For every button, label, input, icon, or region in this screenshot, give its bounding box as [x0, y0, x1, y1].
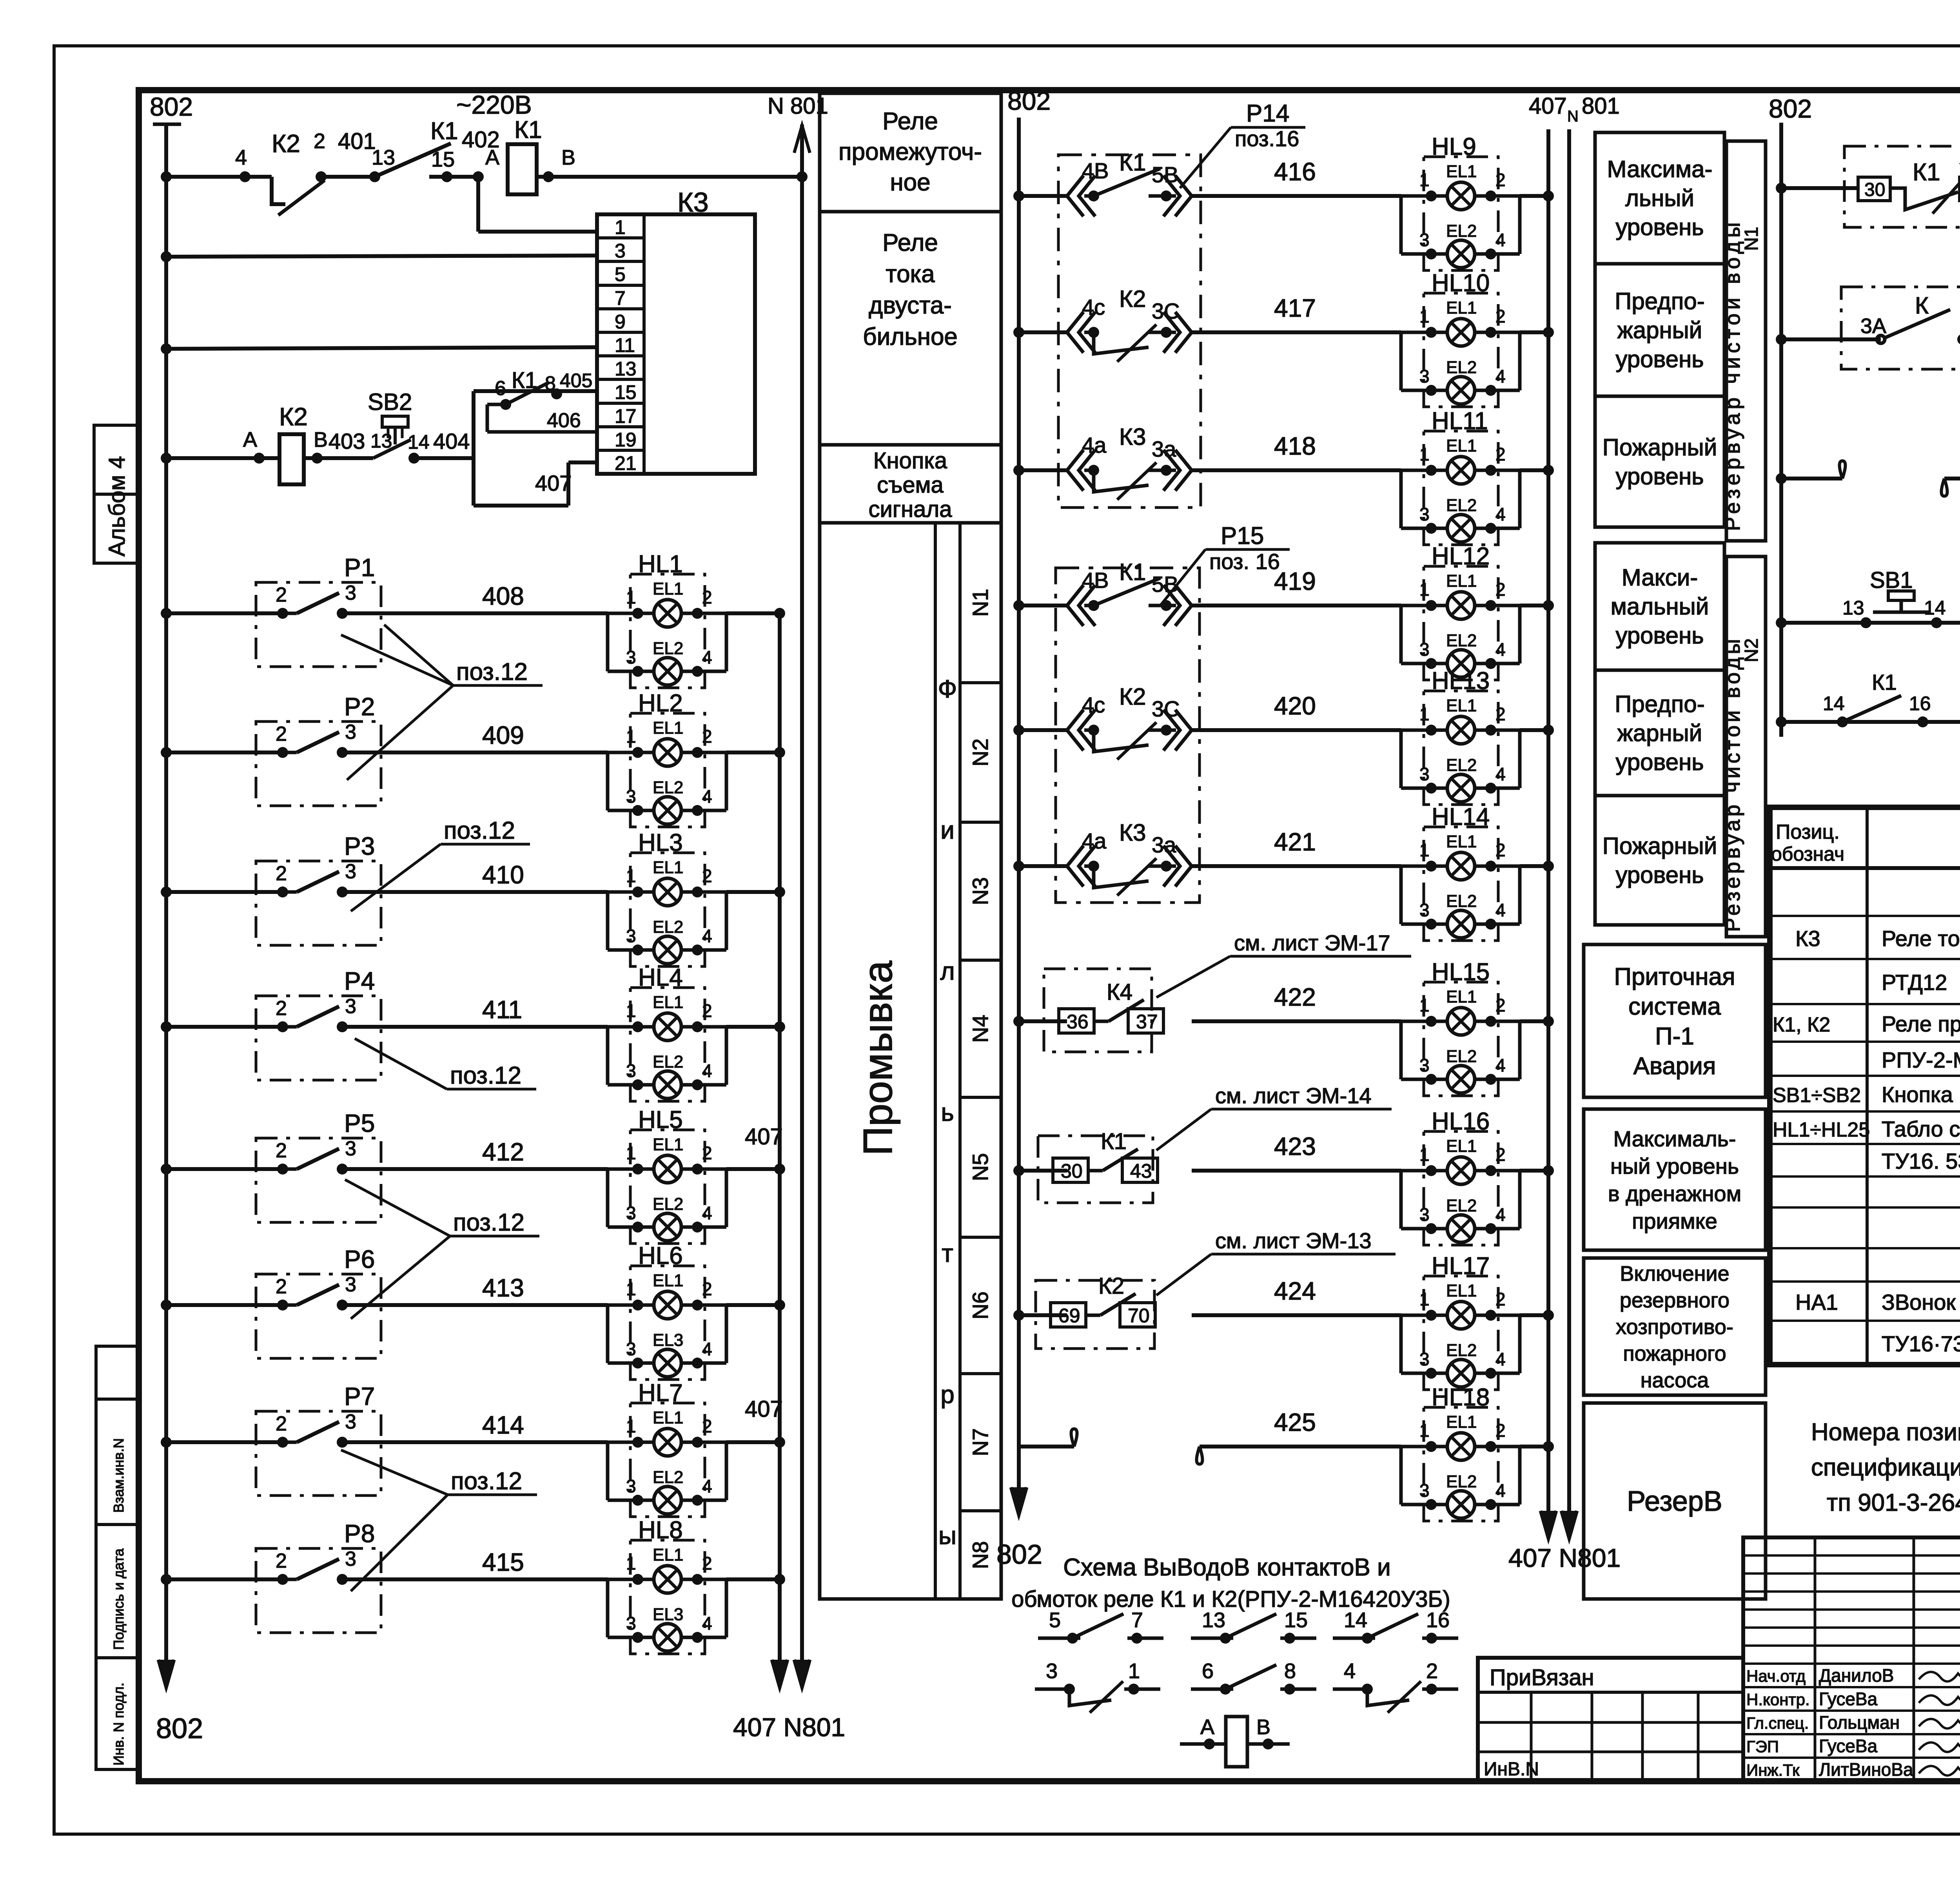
- svg-text:обознач: обознач: [1771, 843, 1844, 865]
- box Пожарный уровень N1: [1595, 396, 1724, 527]
- svg-text:Приточная: Приточная: [1614, 963, 1735, 990]
- svg-text:HL12: HL12: [1432, 543, 1490, 570]
- tall box Промывка Фильтры N1-N8: [820, 523, 1001, 1599]
- svg-text:3: 3: [626, 1476, 636, 1496]
- svg-text:ное: ное: [890, 169, 930, 196]
- svg-text:EL2: EL2: [1446, 496, 1477, 515]
- svg-text:ГЭП: ГЭП: [1746, 1737, 1779, 1756]
- svg-text:4а: 4а: [1082, 433, 1107, 457]
- svg-text:Максималь-: Максималь-: [1613, 1126, 1736, 1151]
- svg-text:N4: N4: [968, 1015, 993, 1043]
- svg-text:ГусеВа: ГусеВа: [1819, 1736, 1878, 1756]
- svg-text:EL2: EL2: [1446, 892, 1477, 911]
- svg-text:Предпо-: Предпо-: [1615, 288, 1704, 314]
- svg-text:Инв. N подл.: Инв. N подл.: [111, 1682, 127, 1766]
- svg-text:поз.16: поз.16: [1235, 126, 1299, 151]
- svg-text:2: 2: [276, 862, 287, 885]
- svg-text:HL18: HL18: [1432, 1384, 1490, 1411]
- svg-text:HL2: HL2: [638, 690, 683, 717]
- relay coil K2: [279, 434, 304, 484]
- svg-text:EL1: EL1: [1446, 436, 1477, 455]
- svg-text:р: р: [940, 1380, 955, 1409]
- svg-text:3: 3: [1419, 1349, 1430, 1369]
- relay contact Р4: [256, 996, 381, 1080]
- svg-text:4: 4: [1495, 900, 1506, 920]
- svg-text:тп 901-3-264.89: тп 901-3-264.89: [1827, 1489, 1960, 1516]
- svg-text:423: 423: [1274, 1132, 1316, 1160]
- svg-text:2: 2: [276, 723, 287, 745]
- svg-text:приямке: приямке: [1632, 1209, 1717, 1233]
- lamp HL8: [630, 1540, 705, 1654]
- relay contact Р2: [256, 721, 381, 806]
- svg-text:Кнопка КЕ-011У3исп2 ТУ 1652640: Кнопка КЕ-011У3исп2 ТУ 16526407-79: [1882, 1082, 1960, 1107]
- group contact box P14: [1058, 155, 1201, 508]
- relay contact Р6: [256, 1274, 381, 1358]
- svg-text:К: К: [1915, 292, 1929, 319]
- svg-text:~220В: ~220В: [456, 90, 532, 119]
- svg-text:EL2: EL2: [1446, 1341, 1477, 1360]
- svg-text:EL1: EL1: [653, 579, 683, 598]
- svg-text:1: 1: [615, 216, 626, 238]
- svg-text:801: 801: [1582, 93, 1620, 119]
- svg-text:EL2: EL2: [1446, 756, 1477, 775]
- svg-text:2: 2: [276, 997, 287, 1020]
- svg-text:413: 413: [482, 1274, 524, 1302]
- svg-text:РПУ-2-М16420У3Б ~220ВТУ16-5233: РПУ-2-М16420У3Б ~220ВТУ16-523331-78: [1882, 1048, 1960, 1072]
- box Максимальный уровень N1: [1595, 132, 1724, 264]
- svg-text:К1: К1: [1119, 149, 1146, 176]
- svg-text:EL1: EL1: [653, 1408, 683, 1427]
- svg-text:15: 15: [615, 381, 637, 403]
- svg-text:2: 2: [1495, 704, 1506, 724]
- box Реле тока двустабильное: [820, 212, 1001, 445]
- svg-text:спецификации АТХ С01 Альбо: спецификации АТХ С01 Альбом 7: [1811, 1454, 1960, 1481]
- lamp HL11: [1424, 431, 1498, 545]
- svg-text:4: 4: [1495, 1480, 1506, 1501]
- svg-text:Р14: Р14: [1246, 100, 1289, 127]
- svg-text:3: 3: [345, 1137, 356, 1160]
- svg-text:802: 802: [150, 92, 193, 121]
- svg-text:407: 407: [745, 1396, 783, 1422]
- svg-text:бильное: бильное: [863, 323, 958, 350]
- svg-text:ИнВ.N: ИнВ.N: [1484, 1759, 1539, 1780]
- svg-text:11: 11: [615, 334, 635, 356]
- svg-text:1: 1: [626, 866, 636, 886]
- svg-text:N2: N2: [968, 738, 993, 767]
- svg-text:К2: К2: [1119, 286, 1146, 312]
- svg-text:К2: К2: [279, 402, 308, 431]
- svg-text:2: 2: [702, 1553, 712, 1574]
- svg-text:К3: К3: [1795, 926, 1820, 951]
- svg-text:N2: N2: [1741, 638, 1762, 662]
- svg-text:EL2: EL2: [1446, 1196, 1477, 1215]
- svg-text:ы: ы: [938, 1521, 956, 1550]
- svg-text:3: 3: [1419, 1204, 1430, 1225]
- svg-text:3а: 3а: [1152, 832, 1176, 857]
- svg-text:1: 1: [626, 1143, 636, 1163]
- svg-text:Резервуар чистой воды: Резервуар чистой воды: [1721, 218, 1744, 531]
- svg-text:К2: К2: [1119, 683, 1146, 710]
- svg-text:Гл.спец.: Гл.спец.: [1746, 1714, 1809, 1732]
- svg-text:EL2: EL2: [653, 1468, 683, 1487]
- svg-text:4: 4: [1495, 1204, 1506, 1225]
- svg-text:2: 2: [1495, 1289, 1506, 1309]
- svg-text:420: 420: [1274, 692, 1316, 720]
- svg-text:HL11: HL11: [1432, 408, 1488, 435]
- svg-text:2: 2: [1495, 995, 1506, 1015]
- svg-text:1: 1: [1419, 579, 1430, 600]
- contact К2 row 420: [1067, 710, 1083, 750]
- svg-text:HL1: HL1: [638, 551, 683, 578]
- svg-text:2: 2: [276, 584, 287, 606]
- svg-text:422: 422: [1274, 983, 1316, 1011]
- svg-text:4с: 4с: [1082, 692, 1105, 717]
- svg-text:НА1: НА1: [1795, 1290, 1838, 1314]
- svg-text:404: 404: [433, 429, 470, 453]
- svg-text:408: 408: [482, 582, 524, 610]
- left margin strip Инв подписи: [96, 1346, 139, 1399]
- wire 408: [161, 608, 172, 619]
- svg-text:Максима-: Максима-: [1607, 156, 1712, 182]
- svg-text:1: 1: [626, 1001, 636, 1021]
- svg-text:Кнопка: Кнопка: [873, 448, 947, 473]
- svg-text:4В: 4В: [1082, 158, 1109, 183]
- wire 416 and lamp HL9: [1013, 190, 1024, 201]
- svg-text:5: 5: [615, 263, 626, 285]
- svg-text:EL1: EL1: [1446, 832, 1477, 851]
- svg-text:1: 1: [626, 1416, 636, 1436]
- svg-text:401: 401: [338, 129, 376, 154]
- svg-text:ДанилоВ: ДанилоВ: [1819, 1665, 1894, 1686]
- svg-text:4с: 4с: [1082, 295, 1105, 319]
- left margin boxes Альбом 4: [94, 425, 139, 563]
- lamp HL3: [630, 853, 705, 966]
- svg-text:А: А: [485, 146, 499, 169]
- wire 428-431 with breaks: [1776, 473, 1787, 484]
- svg-text:2: 2: [1495, 444, 1506, 464]
- box Максимальный уровень N2: [1595, 543, 1724, 670]
- svg-text:EL1: EL1: [653, 1545, 683, 1564]
- lamp HL14: [1424, 827, 1498, 941]
- lamp HL18: [1424, 1407, 1498, 1521]
- svg-text:2: 2: [1495, 306, 1506, 326]
- svg-text:3: 3: [1419, 1480, 1430, 1501]
- svg-text:4: 4: [1495, 1055, 1506, 1075]
- svg-text:Р5: Р5: [344, 1109, 375, 1137]
- svg-text:пожарного: пожарного: [1623, 1342, 1726, 1365]
- svg-text:съема: съема: [877, 472, 944, 498]
- wire 412: [161, 1164, 172, 1175]
- svg-text:Реле: Реле: [882, 108, 938, 135]
- svg-text:SB2: SB2: [368, 389, 412, 415]
- svg-text:1: 1: [1419, 1289, 1430, 1309]
- svg-text:1: 1: [1128, 1659, 1140, 1683]
- svg-text:3: 3: [1419, 639, 1430, 660]
- svg-text:N5: N5: [968, 1153, 993, 1181]
- svg-text:EL1: EL1: [1446, 1281, 1477, 1300]
- wire 425 and lamp HL18: [1019, 1445, 1074, 1448]
- svg-text:2: 2: [1495, 840, 1506, 860]
- svg-text:Р8: Р8: [344, 1519, 375, 1548]
- svg-text:Р4: Р4: [344, 967, 375, 995]
- svg-text:Нач.отд: Нач.отд: [1746, 1667, 1806, 1685]
- svg-text:4: 4: [702, 786, 712, 807]
- strip Резервуар чистой воды N2: [1726, 557, 1766, 937]
- specification table: [1770, 807, 1960, 1365]
- wire 411: [161, 1021, 172, 1032]
- svg-text:Табло сВетоВое ГСБ-Ш-У3-01: Табло сВетоВое ГСБ-Ш-У3-01: [1882, 1117, 1960, 1141]
- svg-text:обмоток реле К1 и К2(РПУ-2-М16: обмоток реле К1 и К2(РПУ-2-М16420У3Б): [1011, 1586, 1450, 1612]
- svg-text:2: 2: [702, 587, 712, 607]
- svg-text:3: 3: [1419, 366, 1430, 386]
- svg-text:3: 3: [626, 786, 636, 807]
- svg-text:2: 2: [702, 866, 712, 886]
- svg-text:2: 2: [1495, 170, 1506, 190]
- svg-text:Промывка: Промывка: [855, 961, 901, 1156]
- svg-text:3: 3: [1419, 764, 1430, 784]
- wire 414: [161, 1437, 172, 1448]
- svg-text:EL2: EL2: [1446, 358, 1477, 377]
- svg-text:Гольцман: Гольцман: [1819, 1712, 1900, 1733]
- lamp HL1: [630, 574, 705, 688]
- svg-text:Позиц.: Позиц.: [1776, 821, 1840, 843]
- box Кнопка съема сигнала: [820, 445, 1001, 523]
- svg-text:К1: К1: [1119, 559, 1146, 585]
- svg-text:Авария: Авария: [1633, 1053, 1716, 1080]
- svg-text:EL1: EL1: [1446, 571, 1477, 591]
- svg-text:К4: К4: [1107, 979, 1132, 1005]
- svg-text:Номера позиций приборов соо: Номера позиций приборов соотВетстВуют: [1811, 1419, 1960, 1446]
- svg-text:1: 1: [1419, 1144, 1430, 1165]
- svg-text:14: 14: [1344, 1608, 1367, 1632]
- svg-text:поз.12: поз.12: [456, 658, 528, 685]
- svg-text:HL5: HL5: [638, 1106, 683, 1133]
- svg-text:407 N801: 407 N801: [733, 1713, 845, 1742]
- svg-text:7: 7: [1131, 1608, 1143, 1632]
- svg-text:N7: N7: [968, 1428, 993, 1456]
- svg-text:К1: К1: [512, 368, 537, 393]
- box Резерв: [1584, 1403, 1766, 1599]
- svg-text:HL10: HL10: [1432, 270, 1490, 297]
- svg-text:К1: К1: [1872, 670, 1897, 694]
- svg-text:см. лист ЭМ-17: см. лист ЭМ-17: [1234, 930, 1390, 955]
- svg-text:уровень: уровень: [1615, 862, 1704, 888]
- svg-text:HL7: HL7: [638, 1380, 683, 1407]
- svg-text:3: 3: [626, 1203, 636, 1223]
- svg-text:поз.12: поз.12: [450, 1062, 521, 1089]
- svg-text:EL2: EL2: [653, 1195, 683, 1214]
- svg-text:2: 2: [276, 1550, 287, 1572]
- line 407 left: [778, 613, 782, 1685]
- svg-text:3: 3: [345, 582, 356, 604]
- svg-text:407: 407: [535, 471, 572, 495]
- svg-text:В: В: [1256, 1715, 1270, 1739]
- svg-text:HL8: HL8: [638, 1517, 683, 1544]
- svg-text:Реле тока дВустабильное: Реле тока дВустабильное: [1882, 926, 1960, 951]
- svg-text:13: 13: [615, 358, 637, 380]
- svg-text:Инж.Тк: Инж.Тк: [1746, 1761, 1800, 1779]
- svg-text:4В: 4В: [1082, 568, 1109, 593]
- svg-text:EL1: EL1: [1446, 1412, 1477, 1432]
- svg-text:ь: ь: [941, 1098, 954, 1126]
- svg-text:HL16: HL16: [1432, 1108, 1490, 1135]
- svg-text:Предпо-: Предпо-: [1615, 691, 1704, 717]
- group contact box P15: [1056, 568, 1200, 903]
- svg-text:4: 4: [1495, 504, 1506, 524]
- svg-text:4: 4: [1495, 366, 1506, 386]
- svg-text:EL2: EL2: [653, 778, 683, 797]
- svg-text:К3: К3: [1119, 424, 1146, 450]
- svg-text:419: 419: [1274, 567, 1316, 595]
- svg-text:1: 1: [1419, 704, 1430, 724]
- svg-text:3: 3: [1419, 900, 1430, 920]
- svg-text:412: 412: [482, 1138, 524, 1166]
- svg-text:Ф: Ф: [938, 675, 957, 703]
- svg-text:14: 14: [1924, 597, 1946, 619]
- relay contact Р3: [256, 861, 381, 945]
- svg-text:Включение: Включение: [1620, 1262, 1729, 1285]
- svg-text:В: В: [561, 146, 575, 169]
- svg-text:Схема ВыВодоВ контактоВ и: Схема ВыВодоВ контактоВ и: [1063, 1554, 1390, 1581]
- svg-text:поз.12: поз.12: [451, 1468, 522, 1495]
- svg-text:4: 4: [1495, 639, 1506, 660]
- svg-text:5: 5: [1049, 1608, 1061, 1632]
- svg-text:EL1: EL1: [653, 718, 683, 738]
- svg-text:4: 4: [702, 1476, 712, 1496]
- svg-text:N3: N3: [968, 877, 993, 905]
- contact К1 row 416: [1067, 176, 1083, 216]
- svg-text:см. лист ЭМ-13: см. лист ЭМ-13: [1215, 1228, 1372, 1253]
- svg-text:2: 2: [1495, 1144, 1506, 1165]
- svg-text:РезерВ: РезерВ: [1627, 1486, 1722, 1517]
- svg-text:418: 418: [1274, 432, 1316, 460]
- svg-text:РТД12: РТД12: [1882, 970, 1947, 995]
- svg-text:1: 1: [1419, 306, 1430, 326]
- wire 410: [161, 886, 172, 897]
- wire 417 and lamp HL10: [1013, 327, 1024, 338]
- svg-text:EL1: EL1: [1446, 298, 1477, 317]
- svg-text:К1, К2: К1, К2: [1773, 1013, 1830, 1036]
- svg-text:2: 2: [276, 1275, 287, 1298]
- svg-text:А: А: [243, 428, 257, 451]
- box Предпожарный уровень N1: [1595, 264, 1724, 396]
- svg-text:HL13: HL13: [1432, 667, 1490, 694]
- svg-text:К1: К1: [430, 118, 458, 145]
- lamp HL2: [630, 713, 705, 827]
- svg-text:4: 4: [1344, 1659, 1356, 1683]
- svg-text:4: 4: [702, 1613, 712, 1633]
- svg-text:мальный: мальный: [1611, 593, 1709, 620]
- contact box K1 30-43 right: [1844, 146, 1960, 227]
- svg-text:3: 3: [345, 1410, 356, 1433]
- svg-text:ТУ16·739.059-76: ТУ16·739.059-76: [1882, 1331, 1960, 1356]
- svg-text:30: 30: [1864, 179, 1885, 200]
- svg-text:EL1: EL1: [1446, 696, 1477, 715]
- svg-text:К1: К1: [1913, 159, 1940, 186]
- svg-text:Н.контр.: Н.контр.: [1746, 1690, 1810, 1709]
- svg-text:В: В: [314, 428, 328, 451]
- svg-text:3: 3: [626, 1613, 636, 1633]
- svg-text:405: 405: [560, 370, 592, 392]
- svg-text:двуста-: двуста-: [869, 292, 952, 319]
- svg-text:2: 2: [702, 726, 712, 747]
- svg-text:4: 4: [235, 146, 247, 169]
- contact К4: [1044, 969, 1152, 1052]
- svg-text:8: 8: [1284, 1659, 1296, 1683]
- wire 420 and lamp HL13: [1013, 725, 1024, 736]
- svg-text:3: 3: [1419, 504, 1430, 524]
- box Приточная система П-1 Авария: [1584, 944, 1766, 1097]
- box Включение резервного насоса: [1584, 1258, 1766, 1395]
- svg-text:в дренажном: в дренажном: [1608, 1181, 1741, 1206]
- svg-text:15: 15: [431, 148, 455, 171]
- svg-text:ТУ16. 535. 424-79: ТУ16. 535. 424-79: [1882, 1149, 1960, 1173]
- svg-text:3: 3: [345, 1548, 356, 1570]
- svg-text:6: 6: [1202, 1659, 1214, 1683]
- svg-text:410: 410: [482, 861, 524, 889]
- contact box K 3А-2Б right: [1841, 287, 1960, 369]
- svg-text:3: 3: [345, 721, 356, 743]
- svg-text:уровень: уровень: [1615, 463, 1704, 489]
- svg-text:HL4: HL4: [638, 964, 683, 991]
- svg-text:407 N801: 407 N801: [1508, 1543, 1621, 1572]
- box Предпожарный уровень N2: [1595, 670, 1724, 796]
- wire row 3 to K3 terminal 11: [161, 343, 172, 354]
- sub-circuit with K1 contact wires 405 406 407: [472, 391, 475, 458]
- svg-text:N8: N8: [968, 1541, 993, 1569]
- svg-text:3: 3: [626, 1339, 636, 1359]
- svg-text:415: 415: [482, 1548, 524, 1576]
- svg-text:421: 421: [1274, 828, 1316, 856]
- svg-text:Р1: Р1: [344, 553, 375, 582]
- svg-text:поз. 16: поз. 16: [1209, 549, 1280, 574]
- contact К2: [1036, 1280, 1154, 1349]
- svg-text:4: 4: [702, 1060, 712, 1081]
- svg-text:2: 2: [1426, 1659, 1438, 1683]
- svg-text:EL1: EL1: [1446, 1137, 1477, 1156]
- svg-text:Р2: Р2: [344, 692, 375, 721]
- svg-text:1: 1: [1419, 840, 1430, 860]
- svg-text:3С: 3С: [1152, 299, 1180, 323]
- svg-text:EL2: EL2: [1446, 221, 1477, 241]
- svg-text:4: 4: [1495, 764, 1506, 784]
- svg-text:льный: льный: [1625, 185, 1694, 211]
- contact К3 row 418: [1067, 450, 1083, 491]
- svg-text:жарный: жарный: [1617, 317, 1702, 343]
- svg-text:EL1: EL1: [653, 858, 683, 877]
- wire 413: [161, 1300, 172, 1311]
- wire 418 and lamp HL11: [1013, 465, 1024, 476]
- svg-text:2: 2: [314, 129, 325, 153]
- contact К2 row 417: [1067, 312, 1083, 353]
- branch to K3 terminal 1: [476, 177, 480, 232]
- svg-text:411: 411: [482, 995, 522, 1024]
- svg-text:15: 15: [1284, 1608, 1308, 1632]
- top row wire 401-402 with K2 break contact and K1 make contact: [161, 171, 172, 182]
- svg-text:EL2: EL2: [653, 1052, 683, 1071]
- svg-text:3: 3: [1046, 1659, 1058, 1683]
- svg-text:424: 424: [1274, 1277, 1316, 1305]
- svg-text:14: 14: [1823, 692, 1845, 714]
- svg-text:2: 2: [702, 1416, 712, 1436]
- svg-text:17: 17: [615, 405, 637, 427]
- svg-text:14: 14: [408, 431, 430, 453]
- svg-text:EL2: EL2: [653, 639, 683, 658]
- svg-text:HL6: HL6: [638, 1242, 683, 1269]
- svg-text:1: 1: [1419, 1420, 1430, 1441]
- svg-text:21: 21: [615, 452, 637, 474]
- svg-text:802: 802: [156, 1713, 203, 1744]
